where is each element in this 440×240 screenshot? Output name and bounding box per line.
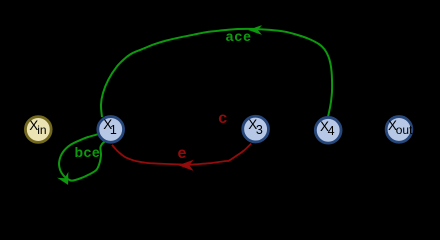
label X4 <box>320 120 329 134</box>
label bce <box>75 145 101 159</box>
node X_out circle <box>386 117 412 143</box>
edge e (red arc X3 to X1) <box>112 144 251 165</box>
label X_out <box>388 119 397 133</box>
label ace <box>226 29 252 43</box>
label X3 <box>248 118 257 132</box>
node X3 circle <box>243 116 269 142</box>
arrowhead of edge e <box>180 161 193 170</box>
label e <box>178 146 187 162</box>
edge bce (green self-loop on X1) <box>59 134 104 180</box>
edge ace (green arc from X4 up over to X1) <box>101 29 332 117</box>
node X4 circle <box>315 117 341 143</box>
arrowhead of edge bce <box>59 174 68 184</box>
node X1 circle <box>98 117 124 143</box>
label c <box>218 111 227 127</box>
node X_in circle <box>25 117 51 143</box>
label X_in <box>29 119 38 133</box>
label X1 <box>103 118 112 132</box>
arrowhead of edge ace <box>250 26 261 34</box>
